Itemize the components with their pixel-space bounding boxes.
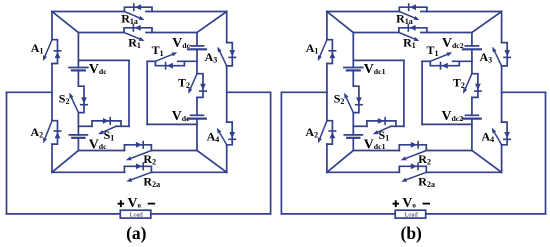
svg-text:Load: Load [405,211,419,218]
svg-text:(b): (b) [401,223,423,243]
svg-text:(a): (a) [126,223,147,243]
svg-text:Load: Load [130,211,144,218]
